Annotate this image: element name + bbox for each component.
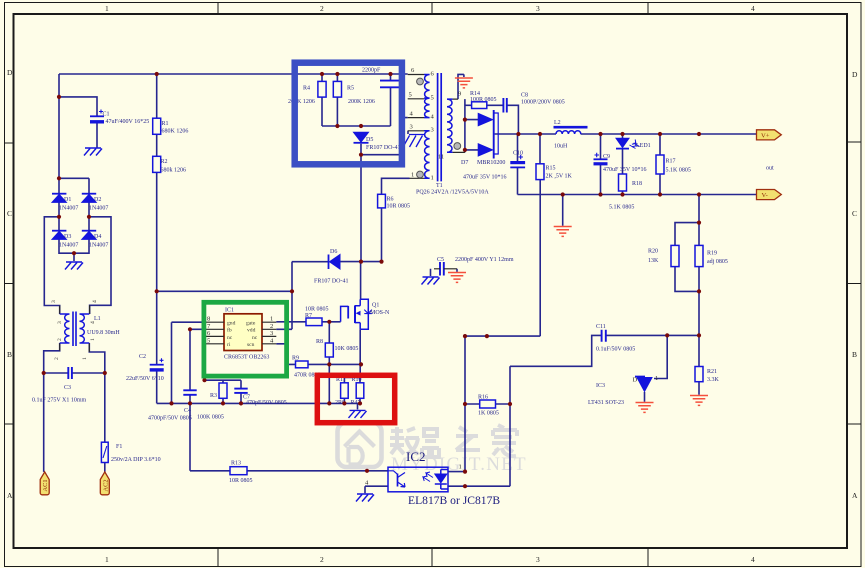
svg-text:1: 1 — [270, 316, 273, 323]
wire R3 leads — [222, 380, 224, 403]
svg-text:C: C — [7, 209, 12, 218]
svg-text:D3: D3 — [64, 234, 71, 240]
resistor R5 — [333, 81, 375, 105]
capacitor C4 — [148, 390, 197, 421]
svg-text:680k 1206: 680k 1206 — [161, 168, 187, 174]
svg-text:C8: C8 — [521, 93, 528, 99]
wire C9 chain — [600, 134, 602, 195]
svg-text:Q1: Q1 — [372, 303, 379, 309]
IC1 pins left — [206, 322, 225, 344]
capacitor C1 — [90, 110, 149, 126]
ground below C1 — [84, 148, 102, 156]
row ticks left — [5, 143, 14, 424]
wire R15 chain — [539, 134, 541, 164]
svg-text:R6: R6 — [387, 197, 394, 203]
resistor R6 — [378, 194, 410, 209]
red ground near R14 — [455, 78, 473, 88]
svg-text:D5: D5 — [366, 137, 373, 143]
wire D6 anode to R6 — [340, 261, 382, 263]
wire LED R18 chain — [622, 134, 624, 195]
svg-text:D6: D6 — [330, 249, 337, 255]
svg-text:D7: D7 — [461, 160, 468, 166]
wire C5 leads — [431, 269, 458, 276]
wire R14 left lead — [465, 104, 472, 106]
svg-text:T1: T1 — [436, 183, 443, 189]
svg-text:L2: L2 — [554, 120, 561, 126]
resistor R15 — [536, 164, 573, 180]
wire D7 anode leads — [465, 120, 478, 150]
svg-text:R20: R20 — [648, 249, 658, 255]
svg-text:13K: 13K — [648, 258, 659, 264]
resistor R11 — [335, 377, 348, 406]
svg-text:2K ,5V 1K: 2K ,5V 1K — [546, 174, 573, 180]
junction dots — [155, 72, 159, 76]
wire fb horizontal — [157, 290, 292, 292]
svg-text:R18: R18 — [632, 181, 642, 187]
svg-text:AC1: AC1 — [42, 479, 49, 491]
wire C10 chain — [517, 134, 519, 195]
svg-text:10R 0805: 10R 0805 — [387, 204, 411, 210]
svg-text:MOS-N: MOS-N — [370, 310, 390, 316]
svg-text:D2: D2 — [94, 197, 101, 203]
inductor L2 — [554, 120, 588, 150]
svg-text:1N4007: 1N4007 — [89, 243, 108, 249]
terminal V- — [757, 190, 782, 200]
diode D1 — [52, 194, 78, 212]
terminal AC2 — [100, 472, 109, 495]
svg-text:11: 11 — [438, 154, 444, 161]
wire fb top link — [465, 180, 540, 336]
svg-text:10K 0805: 10K 0805 — [335, 346, 359, 352]
svg-text:C1: C1 — [103, 112, 110, 118]
wire R10 R11 bottoms — [344, 398, 360, 403]
hatch symbol at pin3 — [403, 135, 424, 148]
ground below bridge — [65, 262, 83, 270]
svg-text:out: out — [766, 166, 774, 172]
terminal AC1 — [40, 472, 49, 495]
svg-text:D: D — [7, 68, 13, 77]
choke L1 — [51, 300, 120, 360]
wire bridge bottom — [59, 239, 89, 261]
polarity dots — [417, 78, 424, 85]
svg-text:4700pF/50V 0805: 4700pF/50V 0805 — [148, 416, 192, 422]
svg-text:1: 1 — [655, 375, 658, 382]
wire C1 to ground — [96, 123, 98, 148]
svg-text:3: 3 — [536, 555, 540, 564]
svg-text:2200pF 400V Y1 12mm: 2200pF 400V Y1 12mm — [455, 257, 514, 263]
svg-text:10uH: 10uH — [554, 144, 568, 150]
svg-text:B: B — [852, 350, 857, 359]
wire R16 row — [465, 403, 510, 405]
resistor R13 — [229, 461, 253, 485]
svg-text:3: 3 — [57, 321, 63, 324]
diode D6 — [314, 249, 349, 285]
svg-text:3.3K: 3.3K — [707, 377, 720, 383]
wire Vplus rail — [495, 133, 756, 135]
wire R1 R2 chain — [156, 74, 158, 291]
svg-text:C10: C10 — [513, 151, 523, 157]
wire top bus — [59, 73, 408, 75]
secondary winding — [447, 99, 453, 152]
svg-text:2: 2 — [270, 323, 273, 330]
svg-text:1N4007: 1N4007 — [89, 206, 108, 212]
svg-text:D1: D1 — [64, 197, 71, 203]
svg-text:4: 4 — [751, 4, 755, 13]
svg-text:R8: R8 — [316, 339, 323, 345]
wire D5 drain vertical — [360, 144, 362, 299]
transformer T1 — [408, 67, 490, 196]
wire R21 chain — [698, 335, 700, 394]
svg-text:AC2: AC2 — [102, 479, 109, 491]
svg-text:4: 4 — [751, 555, 755, 564]
svg-text:R16: R16 — [478, 395, 488, 401]
wire blue box bottoms — [322, 97, 391, 126]
wire C3 row — [44, 372, 105, 374]
svg-text:EL817B or JC817B: EL817B or JC817B — [408, 494, 500, 507]
wire C7 leads — [240, 380, 242, 403]
resistor R16 — [478, 395, 499, 417]
svg-text:2: 2 — [320, 4, 324, 13]
svg-text:C5: C5 — [437, 257, 444, 263]
hatched ground left of C5 — [422, 277, 440, 285]
wire pin1 to R6 — [382, 178, 410, 194]
resistor R3 — [197, 383, 227, 421]
svg-text:1N4007: 1N4007 — [59, 206, 78, 212]
svg-text:2: 2 — [320, 555, 324, 564]
svg-text:R3: R3 — [210, 393, 217, 399]
WATERMARK — [338, 423, 527, 476]
svg-text:470pF/50V 0805: 470pF/50V 0805 — [246, 400, 287, 406]
wire chassis stem — [357, 403, 359, 409]
wire vdd vertical — [276, 262, 292, 330]
red earth below R21 — [690, 396, 708, 406]
capacitor C10 — [510, 151, 525, 168]
wire L1 bottom left — [44, 343, 60, 472]
terminal V+ — [757, 130, 782, 140]
svg-text:1: 1 — [82, 357, 88, 360]
capacitor C7 — [234, 389, 286, 406]
svg-text:B: B — [7, 350, 12, 359]
svg-text:1: 1 — [105, 4, 109, 13]
resistor R7 — [305, 307, 329, 326]
svg-text:100R 0805: 100R 0805 — [470, 97, 497, 103]
wire R17 chain — [659, 134, 661, 195]
wire C1 branch — [59, 97, 97, 116]
svg-text:LT431 SOT-23: LT431 SOT-23 — [588, 400, 624, 406]
svg-text:1: 1 — [90, 338, 96, 341]
resistor R20 — [648, 245, 679, 266]
LED1 — [616, 138, 651, 149]
svg-text:C2: C2 — [139, 354, 146, 360]
hatched ground below opto — [356, 494, 374, 502]
resistor R17 — [656, 155, 691, 174]
svg-text:adj 0805: adj 0805 — [707, 259, 728, 265]
capacitor C11 — [596, 324, 635, 353]
svg-text:10R 0805: 10R 0805 — [305, 307, 329, 313]
wire TL431 drop — [654, 335, 667, 378]
resistor R4 — [288, 81, 326, 105]
wire TL431 gnd stem — [644, 392, 646, 402]
resistor R9 — [292, 356, 321, 379]
diode D2 — [82, 194, 109, 212]
svg-text:2: 2 — [57, 338, 63, 341]
svg-text:FR107 DO-41: FR107 DO-41 — [314, 279, 349, 285]
svg-text:IC3: IC3 — [596, 383, 605, 389]
svg-text:R5: R5 — [347, 86, 354, 92]
wire R13 row — [190, 470, 388, 472]
wire opto anode vertical — [448, 336, 465, 472]
svg-text:A: A — [7, 491, 13, 500]
svg-text:0.1uF/50V 0805: 0.1uF/50V 0805 — [596, 347, 635, 353]
svg-text:5.1K 0805: 5.1K 0805 — [666, 168, 691, 174]
svg-text:3: 3 — [536, 4, 540, 13]
svg-text:1: 1 — [431, 175, 434, 182]
svg-text:A: A — [852, 491, 858, 500]
IC1 body — [206, 308, 277, 361]
wire left drop to bridge — [58, 74, 60, 194]
dual diode D7 — [461, 110, 507, 181]
svg-text:L1: L1 — [94, 316, 101, 322]
svg-text:V+: V+ — [761, 133, 770, 140]
capacitor C2 — [126, 354, 164, 382]
wire L1 bottom right — [89, 343, 105, 442]
wire D6 cathode — [292, 261, 328, 263]
svg-text:C11: C11 — [596, 324, 606, 330]
snubber capacitor 2200pF — [362, 68, 401, 88]
wire pin4 drop — [361, 118, 408, 155]
resistor R21 — [695, 367, 720, 384]
column ticks top — [218, 3, 648, 15]
primary winding — [424, 75, 430, 118]
wire R6 bottom — [381, 208, 383, 262]
mosfet Q1 — [341, 299, 390, 329]
wire blue box R4 R5 tops — [322, 74, 337, 81]
wire C2 leads — [156, 291, 158, 403]
capacitor C8 — [503, 93, 564, 113]
svg-text:R7: R7 — [305, 313, 312, 319]
svg-text:R17: R17 — [666, 159, 676, 165]
green highlight box — [204, 302, 287, 376]
red earth right of C5 — [448, 273, 466, 283]
wire box cap — [390, 74, 392, 126]
wire bridge mid row — [59, 202, 89, 231]
svg-text:D: D — [633, 377, 638, 384]
svg-text:22uF/50V 6*10: 22uF/50V 6*10 — [126, 376, 164, 382]
svg-text:R2: R2 — [161, 159, 168, 165]
core — [438, 73, 442, 181]
svg-text:C: C — [852, 209, 857, 218]
HIGHLIGHT BOXES — [204, 63, 402, 423]
svg-text:ri: ri — [227, 342, 231, 348]
svg-text:47uF/400V 16*25: 47uF/400V 16*25 — [106, 119, 150, 125]
wire bridge plus link — [59, 178, 89, 194]
svg-text:4: 4 — [92, 300, 98, 303]
red earth below IC3 — [636, 403, 654, 413]
wire R19 R20 pair — [675, 195, 699, 336]
svg-text:R19: R19 — [707, 251, 717, 257]
wire main ground bus — [157, 402, 360, 404]
svg-text:200K 1206: 200K 1206 — [348, 99, 375, 105]
svg-text:R13: R13 — [231, 461, 241, 467]
fuse F1 — [101, 442, 160, 463]
resistor R18 — [609, 174, 642, 211]
svg-text:scn: scn — [247, 342, 255, 348]
wire pin5 ri — [205, 344, 242, 380]
red highlight box — [317, 375, 394, 422]
wire pin8 gnd — [172, 322, 206, 403]
column ticks bottom — [218, 548, 648, 567]
svg-text:100K 0805: 100K 0805 — [197, 415, 224, 421]
svg-text:fb: fb — [227, 327, 232, 334]
wire opto cathode — [448, 366, 510, 486]
wire fb to C11 — [510, 335, 699, 366]
svg-text:2200pF: 2200pF — [362, 68, 381, 74]
svg-text:LED1: LED1 — [636, 143, 651, 149]
svg-text:gnd: gnd — [227, 320, 236, 326]
svg-text:470uF 35V 10*16: 470uF 35V 10*16 — [463, 175, 507, 181]
svg-text:5.1K 0805: 5.1K 0805 — [609, 205, 634, 211]
blue highlight box — [295, 63, 402, 165]
wire opto input gnd — [365, 486, 388, 493]
wire bridge ac left — [44, 217, 59, 314]
svg-text:1: 1 — [105, 555, 109, 564]
diode D5 — [354, 132, 401, 151]
svg-text:C9: C9 — [603, 154, 610, 160]
resistor R14 — [470, 91, 497, 109]
svg-text:D: D — [852, 70, 858, 79]
svg-text:3: 3 — [51, 300, 57, 303]
wire R14 to C8 — [487, 105, 519, 134]
capacitor C9 — [594, 153, 647, 173]
wire pin9 to ground — [458, 74, 464, 99]
svg-text:D4: D4 — [94, 234, 101, 240]
wire bridge ac right — [89, 217, 111, 314]
svg-text:IC2: IC2 — [406, 449, 426, 464]
svg-text:UU9.8 30mH: UU9.8 30mH — [87, 330, 120, 336]
svg-text:MBR10200: MBR10200 — [477, 160, 505, 166]
svg-text:2: 2 — [54, 357, 60, 360]
svg-text:0.1uF 275V X1 10mm: 0.1uF 275V X1 10mm — [32, 398, 87, 404]
svg-text:10R 0805: 10R 0805 — [229, 478, 253, 484]
wire D7 output — [494, 133, 495, 135]
svg-text:R15: R15 — [546, 166, 556, 172]
capacitor C3 — [32, 367, 87, 404]
wire scn to R9 — [276, 344, 361, 365]
resistor R2 — [153, 156, 186, 173]
diode D4 — [82, 231, 109, 249]
row ticks right — [847, 142, 861, 424]
wire R8 vertical — [328, 322, 330, 404]
svg-text:1: 1 — [411, 172, 414, 179]
svg-text:250v/2A DIP 3.6*10: 250v/2A DIP 3.6*10 — [111, 457, 161, 463]
svg-text:vdd: vdd — [247, 328, 256, 334]
svg-text:gate: gate — [246, 320, 256, 326]
resistor R1 — [153, 118, 189, 134]
svg-text:470uF 35V 10*16: 470uF 35V 10*16 — [603, 167, 647, 173]
svg-text:C3: C3 — [64, 385, 71, 391]
shunt regulator IC3 — [588, 375, 658, 406]
wire snubber vertical — [464, 99, 466, 152]
svg-text:nc: nc — [252, 335, 258, 341]
resistor R8 — [316, 339, 358, 357]
wire sec gnd stem — [562, 195, 564, 226]
wire pin7 fb chain — [190, 329, 206, 471]
svg-text:PQ26 24V2A /12V5A/5V10A: PQ26 24V2A /12V5A/5V10A — [416, 190, 489, 196]
svg-text:R1: R1 — [162, 121, 169, 127]
svg-text:680K 1206: 680K 1206 — [162, 129, 189, 135]
resistor R10 — [351, 377, 364, 406]
svg-text:IC1: IC1 — [225, 308, 234, 314]
red earth on Vminus rail — [554, 227, 572, 237]
svg-text:FR107 DO-41: FR107 DO-41 — [366, 145, 401, 151]
wire Vminus rail — [518, 194, 757, 196]
svg-text:C4: C4 — [184, 408, 191, 414]
svg-text:CR6853T OB2263: CR6853T OB2263 — [224, 355, 269, 361]
wire gate row — [276, 321, 340, 323]
svg-text:nc: nc — [227, 335, 233, 341]
svg-text:1N4007: 1N4007 — [59, 243, 78, 249]
chassis ground below R10 R11 — [349, 410, 367, 418]
svg-text:R21: R21 — [707, 369, 717, 375]
svg-text:1K 0805: 1K 0805 — [478, 411, 499, 417]
wire Q1 source — [344, 329, 360, 383]
svg-text:R4: R4 — [303, 86, 310, 92]
wire pin3 stub — [407, 131, 409, 134]
resistor R19 — [695, 245, 728, 266]
wire F1 to AC2 — [104, 463, 106, 474]
IC1 pins right — [262, 322, 276, 344]
svg-text:1: 1 — [459, 464, 462, 471]
svg-text:1000P/200V 0805: 1000P/200V 0805 — [521, 100, 565, 106]
svg-text:R9: R9 — [292, 356, 299, 362]
svg-text:F1: F1 — [116, 444, 122, 450]
Y-capacitor C5 — [434, 257, 514, 276]
diode D3 — [52, 231, 78, 249]
optocoupler IC2 — [365, 449, 500, 507]
aux winding — [424, 131, 430, 179]
svg-text:V-: V- — [762, 192, 768, 199]
